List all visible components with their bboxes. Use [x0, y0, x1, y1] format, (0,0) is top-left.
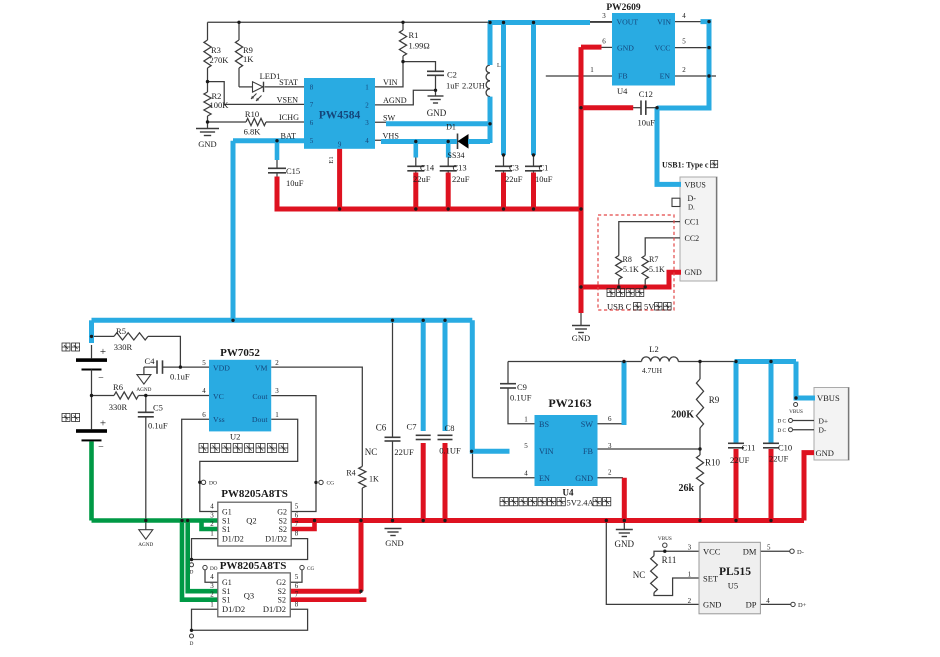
- svg-text:2: 2: [688, 597, 692, 605]
- svg-text:L2: L2: [649, 344, 658, 354]
- svg-text:ICHG: ICHG: [279, 113, 299, 122]
- svg-text:5: 5: [202, 359, 206, 367]
- svg-text:D C: D C: [777, 419, 786, 425]
- svg-text:AGND: AGND: [138, 542, 153, 548]
- svg-text:5: 5: [295, 503, 299, 511]
- svg-text:VIN: VIN: [539, 447, 554, 456]
- svg-text:GND: GND: [575, 474, 593, 483]
- svg-text:VBUS: VBUS: [817, 393, 840, 403]
- svg-text:DP: DP: [746, 600, 757, 610]
- svg-text:270K: 270K: [210, 55, 230, 65]
- svg-text:C2: C2: [447, 70, 457, 80]
- svg-text:6.8K: 6.8K: [244, 127, 262, 137]
- svg-text:VC: VC: [213, 392, 224, 401]
- svg-text:VOUT: VOUT: [617, 17, 639, 26]
- svg-text:C6: C6: [376, 423, 387, 433]
- svg-text:8: 8: [310, 84, 314, 92]
- svg-text:5.1K: 5.1K: [649, 265, 665, 274]
- svg-text:VBUS: VBUS: [789, 409, 803, 415]
- svg-text:1.99Ω: 1.99Ω: [409, 41, 430, 51]
- svg-text:G2: G2: [277, 507, 287, 516]
- svg-text:330R: 330R: [109, 402, 128, 412]
- svg-text:1K: 1K: [369, 475, 379, 484]
- svg-text:2: 2: [275, 359, 279, 367]
- svg-text:R10: R10: [245, 109, 259, 119]
- svg-text:DM: DM: [743, 547, 757, 557]
- svg-text:5: 5: [295, 573, 299, 581]
- svg-text:U4: U4: [563, 488, 574, 498]
- svg-text:4: 4: [524, 470, 528, 478]
- svg-text:PW2163: PW2163: [548, 396, 591, 410]
- svg-text:G2: G2: [276, 578, 286, 587]
- svg-text:3: 3: [210, 582, 214, 590]
- svg-text:5V: 5V: [644, 302, 655, 312]
- svg-text:C15: C15: [286, 166, 300, 176]
- svg-text:1: 1: [210, 530, 214, 538]
- svg-text:3: 3: [608, 442, 612, 450]
- svg-text:1: 1: [524, 416, 528, 424]
- svg-text:C5: C5: [153, 403, 163, 413]
- svg-text:D+: D+: [819, 416, 829, 425]
- svg-text:+: +: [100, 418, 106, 430]
- svg-text:VBUS: VBUS: [685, 180, 706, 189]
- svg-text:CC1: CC1: [685, 218, 700, 227]
- svg-text:7: 7: [310, 101, 314, 109]
- svg-text:D1/D2: D1/D2: [222, 534, 244, 543]
- svg-text:0.1UF: 0.1UF: [439, 446, 461, 456]
- svg-text:D.: D.: [688, 204, 695, 212]
- svg-text:2: 2: [210, 591, 214, 599]
- svg-text:D1/D2: D1/D2: [263, 604, 286, 614]
- svg-text:D1/D2: D1/D2: [222, 604, 245, 614]
- svg-text:VHS: VHS: [383, 131, 400, 140]
- svg-text:LED1: LED1: [260, 71, 281, 81]
- svg-text:D-: D-: [797, 549, 804, 556]
- svg-text:5: 5: [767, 544, 771, 552]
- svg-text:8: 8: [295, 530, 299, 538]
- svg-text:200K: 200K: [671, 410, 694, 421]
- svg-text:VM: VM: [255, 364, 268, 373]
- svg-text:AGND: AGND: [383, 96, 407, 105]
- svg-text:R7: R7: [649, 255, 658, 264]
- svg-text:4: 4: [365, 137, 369, 145]
- svg-text:330R: 330R: [114, 342, 133, 352]
- svg-text:C7: C7: [407, 422, 417, 432]
- svg-text:3: 3: [210, 512, 214, 520]
- svg-text:4.7UH: 4.7UH: [642, 366, 663, 375]
- svg-text:CC2: CC2: [685, 234, 700, 243]
- svg-text:0.1UF: 0.1UF: [510, 393, 532, 403]
- svg-text:Vss: Vss: [213, 415, 225, 424]
- svg-text:6: 6: [602, 38, 606, 46]
- svg-text:6: 6: [295, 512, 299, 520]
- svg-text:NC: NC: [365, 447, 378, 457]
- svg-text:22UF: 22UF: [730, 455, 750, 465]
- svg-text:R9: R9: [709, 395, 720, 405]
- svg-text:0.1uF: 0.1uF: [148, 421, 168, 431]
- svg-text:3: 3: [688, 544, 692, 552]
- svg-text:2: 2: [365, 102, 369, 110]
- svg-text:R1: R1: [409, 30, 419, 40]
- svg-text:1: 1: [275, 411, 279, 419]
- svg-text:GND: GND: [385, 538, 403, 548]
- svg-text:3: 3: [602, 12, 606, 20]
- svg-text:D+: D+: [798, 602, 807, 609]
- svg-text:22uF: 22uF: [413, 174, 431, 184]
- svg-text:U4: U4: [617, 86, 628, 96]
- svg-text:6: 6: [310, 119, 314, 127]
- svg-text:Dout: Dout: [252, 415, 268, 424]
- svg-text:4: 4: [766, 597, 770, 605]
- svg-text:C12: C12: [639, 89, 653, 99]
- svg-text:2.2UH: 2.2UH: [462, 81, 485, 91]
- svg-text:G1: G1: [222, 578, 232, 587]
- svg-text:26k: 26k: [678, 483, 694, 494]
- svg-text:Q3: Q3: [244, 591, 254, 601]
- svg-text:4: 4: [210, 503, 214, 511]
- svg-text:GND: GND: [572, 333, 590, 343]
- svg-text:PW4584: PW4584: [319, 110, 361, 122]
- svg-text:R4: R4: [346, 469, 355, 478]
- svg-text:D: D: [190, 570, 194, 576]
- svg-text:STAT: STAT: [279, 78, 298, 87]
- svg-text:R11: R11: [662, 555, 677, 565]
- svg-text:1uF: 1uF: [446, 81, 460, 91]
- svg-text:4: 4: [682, 12, 686, 20]
- svg-text:FB: FB: [583, 447, 594, 456]
- svg-text:S1: S1: [222, 525, 230, 534]
- svg-text:EN: EN: [539, 474, 550, 483]
- svg-text:0.1uF: 0.1uF: [170, 372, 190, 382]
- svg-text:SS34: SS34: [448, 151, 465, 160]
- svg-text:U5: U5: [728, 581, 738, 591]
- svg-text:R5: R5: [116, 326, 126, 336]
- svg-text:3: 3: [365, 119, 369, 127]
- svg-text:5.1K: 5.1K: [623, 265, 639, 274]
- svg-text:10uF: 10uF: [637, 118, 655, 128]
- svg-text:C13: C13: [453, 163, 467, 173]
- svg-text:AGND: AGND: [136, 387, 151, 393]
- svg-text:U2: U2: [230, 432, 240, 442]
- svg-text:VIN: VIN: [657, 17, 671, 26]
- svg-text:6: 6: [202, 411, 206, 419]
- svg-text:1: 1: [365, 84, 369, 92]
- svg-text:100K: 100K: [210, 100, 230, 110]
- svg-text:1: 1: [210, 600, 214, 608]
- svg-text:R8: R8: [623, 255, 632, 264]
- svg-text:2: 2: [682, 66, 686, 74]
- svg-text:VIN: VIN: [383, 78, 398, 87]
- svg-text:22UF: 22UF: [394, 447, 414, 457]
- svg-text:2: 2: [210, 520, 214, 528]
- svg-text:PW8205A8TS: PW8205A8TS: [221, 488, 288, 500]
- svg-text:22uF: 22uF: [452, 174, 470, 184]
- svg-text:NC: NC: [633, 570, 646, 580]
- svg-text:10uF: 10uF: [286, 178, 304, 188]
- svg-text:USB1: Type c: USB1: Type c: [662, 161, 709, 170]
- svg-text:S2: S2: [279, 525, 287, 534]
- svg-text:EN: EN: [660, 72, 671, 81]
- svg-text:GND: GND: [816, 448, 834, 458]
- svg-text:BS: BS: [539, 420, 549, 429]
- svg-text:5: 5: [310, 137, 314, 145]
- svg-text:SW: SW: [383, 113, 396, 122]
- svg-text:VSEN: VSEN: [277, 95, 298, 104]
- svg-text:DO: DO: [210, 566, 218, 572]
- svg-text:DO: DO: [209, 481, 217, 487]
- svg-text:D1/D2: D1/D2: [265, 534, 287, 543]
- svg-text:4: 4: [210, 573, 214, 581]
- svg-text:GND: GND: [617, 43, 634, 52]
- svg-text:+: +: [100, 346, 106, 358]
- svg-text:C9: C9: [517, 382, 527, 392]
- svg-text:PW2609: PW2609: [606, 3, 641, 13]
- svg-text:8: 8: [295, 600, 299, 608]
- svg-text:7: 7: [295, 591, 299, 599]
- svg-text:GND: GND: [198, 139, 216, 149]
- svg-text:1: 1: [688, 571, 692, 579]
- svg-text:C3: C3: [509, 163, 519, 173]
- svg-text:3: 3: [275, 387, 279, 395]
- svg-text:D: D: [190, 641, 194, 647]
- svg-text:PW7052: PW7052: [220, 347, 260, 359]
- svg-text:R6: R6: [113, 382, 123, 392]
- svg-text:G1: G1: [222, 507, 232, 516]
- svg-text:5: 5: [682, 38, 686, 46]
- svg-text:E1: E1: [328, 156, 335, 163]
- svg-text:1: 1: [590, 66, 594, 74]
- svg-text:C14: C14: [420, 163, 435, 173]
- svg-text:Q2: Q2: [246, 515, 256, 525]
- svg-text:22uF: 22uF: [505, 174, 523, 184]
- svg-text:C8: C8: [445, 423, 455, 433]
- svg-text:C4: C4: [145, 356, 156, 366]
- svg-text:VBUS: VBUS: [658, 536, 672, 542]
- svg-text:PL515: PL515: [719, 566, 751, 578]
- svg-text:C10: C10: [778, 443, 792, 453]
- svg-text:PW8205A8TS: PW8205A8TS: [220, 560, 287, 572]
- svg-text:D1: D1: [446, 123, 456, 132]
- svg-text:6: 6: [295, 582, 299, 590]
- svg-text:4: 4: [202, 387, 206, 395]
- svg-text:D C: D C: [777, 428, 786, 434]
- svg-text:GND: GND: [703, 600, 721, 610]
- svg-text:GND: GND: [427, 108, 447, 118]
- svg-text:9: 9: [338, 141, 342, 149]
- svg-text:−: −: [98, 442, 104, 453]
- svg-text:GND: GND: [615, 539, 635, 549]
- svg-text:C11: C11: [742, 443, 756, 453]
- svg-text:BAT: BAT: [281, 132, 296, 141]
- svg-text:R3: R3: [211, 45, 221, 55]
- svg-text:CG: CG: [307, 566, 314, 572]
- svg-text:SW: SW: [581, 420, 594, 429]
- svg-text:VCC: VCC: [654, 43, 670, 52]
- svg-text:Cout: Cout: [252, 392, 268, 401]
- svg-text:GND: GND: [685, 268, 703, 277]
- svg-text:5V2.4A: 5V2.4A: [567, 498, 595, 508]
- svg-text:VDD: VDD: [213, 364, 230, 373]
- svg-text:5: 5: [524, 442, 528, 450]
- svg-text:FB: FB: [618, 72, 628, 81]
- svg-text:2: 2: [608, 469, 612, 477]
- svg-text:USB C: USB C: [607, 302, 632, 312]
- svg-text:6: 6: [608, 415, 612, 423]
- svg-text:D-: D-: [688, 194, 697, 203]
- svg-text:R10: R10: [705, 458, 721, 468]
- svg-text:VCC: VCC: [703, 547, 721, 557]
- svg-text:22UF: 22UF: [769, 454, 789, 464]
- svg-text:−: −: [98, 373, 104, 384]
- svg-text:1K: 1K: [243, 54, 254, 64]
- svg-text:D-: D-: [819, 426, 827, 435]
- svg-text:CG: CG: [327, 481, 335, 487]
- svg-text:C1: C1: [539, 163, 549, 173]
- svg-text:SET: SET: [703, 574, 719, 584]
- svg-text:7: 7: [295, 520, 299, 528]
- svg-text:10uF: 10uF: [535, 174, 553, 184]
